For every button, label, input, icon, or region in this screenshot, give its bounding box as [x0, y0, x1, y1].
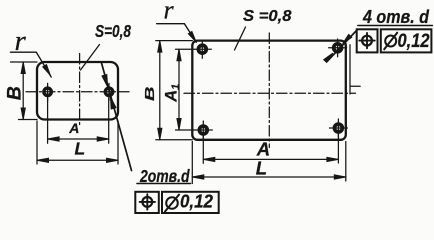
svg-text:S =0,8: S =0,8: [243, 8, 292, 25]
svg-text:A: A: [256, 139, 270, 160]
svg-text:0,12: 0,12: [398, 31, 430, 52]
svg-text:r: r: [164, 0, 175, 25]
svg-text:B: B: [143, 86, 158, 101]
svg-text:L: L: [256, 158, 267, 179]
svg-text:r: r: [15, 25, 27, 57]
svg-text:4 отв. d: 4 отв. d: [362, 6, 429, 27]
svg-text:S=0,8: S=0,8: [95, 21, 131, 41]
svg-text:A: A: [68, 120, 79, 136]
svg-text:0,12: 0,12: [180, 192, 213, 212]
svg-text:B: B: [4, 86, 26, 100]
svg-text:L: L: [75, 139, 86, 159]
svg-text:2отв.d: 2отв.d: [139, 166, 190, 186]
